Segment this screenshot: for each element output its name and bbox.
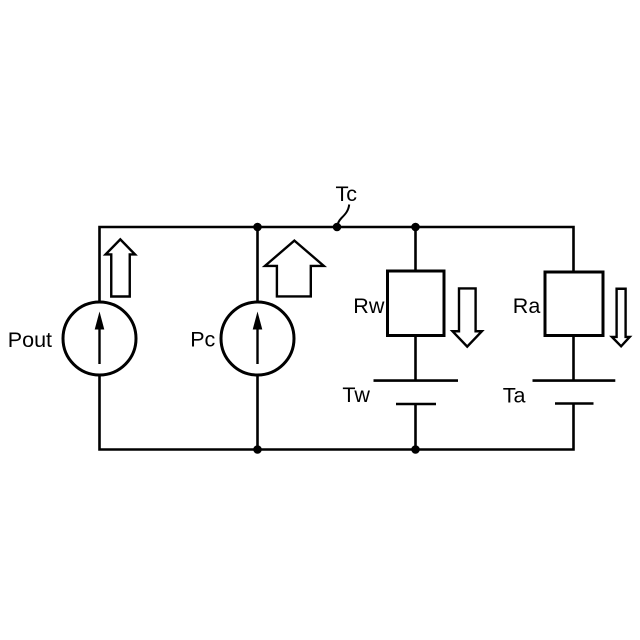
node Tc: junction dot on top bus bbox=[333, 223, 342, 232]
wire: Pc branch lower bbox=[256, 376, 259, 450]
svg-text:Pout: Pout bbox=[8, 328, 52, 352]
voltage source Tw (battery): short plate bbox=[396, 403, 436, 406]
svg-text:Ra: Ra bbox=[513, 294, 541, 318]
svg-text:Pc: Pc bbox=[190, 328, 215, 352]
heat-flow arrow (hollow, down) at Rw bbox=[453, 288, 482, 346]
resistor Rw (box) bbox=[388, 271, 445, 336]
current source Pc bbox=[221, 302, 294, 375]
leader squiggle from Tc to node bbox=[337, 205, 349, 227]
svg-text:Ta: Ta bbox=[503, 383, 526, 407]
voltage source Ta (battery): long plate bbox=[533, 379, 616, 382]
wire: Pc branch upper bbox=[256, 227, 259, 303]
heat-flow arrow (hollow, up) at Pout bbox=[106, 239, 135, 296]
wire: Tw source to bottom bus bbox=[414, 404, 417, 450]
node: junction dot bottom of Rw branch bbox=[411, 445, 420, 454]
wire: Rw box to Tw source bbox=[414, 336, 417, 382]
wire: top bus with left and right corner drops bbox=[100, 227, 574, 303]
resistor Ra (box) bbox=[545, 272, 603, 336]
node: junction dot top of Pc branch bbox=[253, 223, 262, 232]
wire: Rw branch upper bbox=[414, 227, 417, 271]
voltage source Tw (battery): long plate bbox=[374, 379, 459, 382]
svg-text:Tc: Tc bbox=[336, 182, 358, 206]
wire: Ra box to Ta source bbox=[572, 336, 575, 382]
voltage source Ta (battery): short plate bbox=[555, 402, 594, 405]
svg-text:Tw: Tw bbox=[342, 383, 370, 407]
svg-text:Rw: Rw bbox=[353, 294, 385, 318]
node: junction dot bottom of Pc branch bbox=[253, 445, 262, 454]
heat-flow arrow (hollow, up, large) at Pc bbox=[265, 241, 324, 297]
heat-flow arrow (hollow, down, narrow) at Ra bbox=[612, 289, 630, 347]
arrow inside Pout bbox=[95, 312, 105, 365]
wire: bottom bus with left and right corner risers bbox=[100, 376, 574, 450]
current source Pout bbox=[63, 302, 136, 375]
node: junction dot top of Rw branch bbox=[411, 223, 420, 232]
arrow inside Pc bbox=[253, 312, 263, 365]
